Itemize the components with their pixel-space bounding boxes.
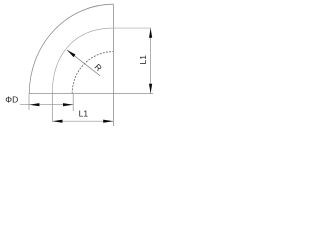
svg-text:ΦD: ΦD xyxy=(5,95,18,105)
top axis extension line xyxy=(113,27,151,29)
phi D right arrow xyxy=(63,103,73,106)
svg-text:L1: L1 xyxy=(138,55,148,65)
phi D left extension line xyxy=(28,94,30,111)
bottom face line + extension to right dimension xyxy=(29,93,153,95)
bottom L1 left arrow xyxy=(52,120,62,123)
elbow outer arc xyxy=(29,4,113,93)
vertical L1 down arrow xyxy=(149,84,152,94)
centerline extension line down xyxy=(51,94,53,122)
top end face line + right extension line xyxy=(112,4,114,126)
svg-text:L1: L1 xyxy=(79,108,89,118)
elbow inner arc (dashed) xyxy=(72,52,113,94)
R leader line xyxy=(67,50,100,76)
bottom L1 right arrow xyxy=(103,120,113,123)
phi D left arrow xyxy=(29,103,39,106)
bottom L1 dimension line xyxy=(52,120,113,122)
R leader arrow xyxy=(67,50,76,57)
vertical L1 dimension line xyxy=(150,28,152,93)
elbow centerline arc xyxy=(52,28,113,93)
vertical L1 up arrow xyxy=(149,28,152,38)
phi D right extension line xyxy=(72,94,74,112)
phi D dimension line with left tail xyxy=(20,104,73,106)
